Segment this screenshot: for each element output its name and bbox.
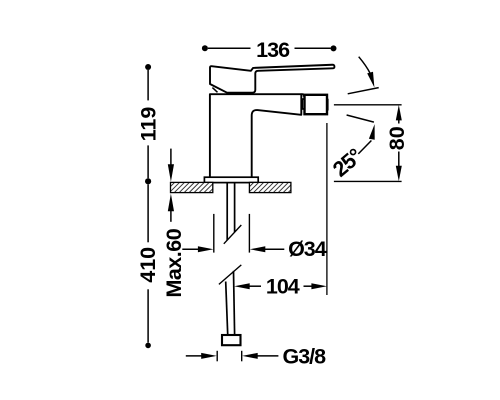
svg-text:Max.60: Max.60 xyxy=(162,228,186,297)
lever step edge xyxy=(251,68,253,71)
angle tick lower xyxy=(347,115,374,122)
dim 104 arrow left xyxy=(234,283,250,289)
svg-text:Ø34: Ø34 xyxy=(288,237,327,261)
dim 104 extension line xyxy=(326,123,328,295)
dim 80 arrow down xyxy=(396,166,402,182)
hose line right xyxy=(234,271,235,334)
dim 119 line lower xyxy=(147,145,149,178)
dim 136 line right xyxy=(295,47,331,49)
svg-text:410: 410 xyxy=(136,247,160,283)
faucet body xyxy=(210,94,301,177)
svg-text:80: 80 xyxy=(385,126,409,150)
dim G3/8 arrow left xyxy=(186,355,203,357)
dim G3/8 tick left xyxy=(216,351,218,362)
dim node dot counter level xyxy=(145,178,151,184)
dim 410 line upper xyxy=(147,184,149,242)
lever notch spur xyxy=(212,88,217,93)
svg-text:G3/8: G3/8 xyxy=(283,345,327,369)
dim 410 line lower xyxy=(147,289,149,342)
dim G3/8 arrow right xyxy=(242,353,258,359)
dim 80 top reference line xyxy=(334,104,402,106)
dim 80 bottom reference line xyxy=(334,180,402,182)
dim 410 dot bottom xyxy=(145,343,151,349)
dim 136 dot left xyxy=(202,45,208,51)
svg-text:119: 119 xyxy=(136,107,160,142)
dim 104 arrow right xyxy=(304,285,314,287)
base plate xyxy=(204,177,258,182)
pipe break lower xyxy=(219,265,241,285)
dim O34 arrow right xyxy=(250,246,265,252)
counter right block xyxy=(249,182,291,192)
dim O34 extension left xyxy=(213,214,215,253)
svg-text:136: 136 xyxy=(256,38,290,62)
pipe break upper xyxy=(224,225,242,244)
dim Max.60 arrow up xyxy=(170,210,172,222)
dim 119 line upper xyxy=(147,70,149,100)
faucet lever handle xyxy=(210,65,334,93)
dim 80 vertical line xyxy=(398,118,400,124)
dim O34 arrow left xyxy=(182,248,199,250)
angle tick upper xyxy=(348,88,379,94)
shank line right xyxy=(234,183,236,233)
angle arrow lower xyxy=(358,141,371,154)
dim G3/8 tick right xyxy=(241,351,243,362)
dim 136 dot right xyxy=(331,45,337,51)
dim O34 extension right xyxy=(248,214,250,253)
aerator block xyxy=(305,95,328,114)
spout connector xyxy=(302,99,304,109)
aerator outlet ledge xyxy=(327,99,329,111)
dim 80 arrow up xyxy=(396,105,402,121)
spout top edge extension xyxy=(301,94,303,96)
shank line left xyxy=(226,183,228,241)
dim Max.60 arrow down xyxy=(170,149,172,165)
hose nut xyxy=(222,335,241,345)
counter left block xyxy=(171,182,213,192)
angle arrow upper xyxy=(359,57,371,74)
dim 119 dot top xyxy=(145,64,151,70)
svg-text:104: 104 xyxy=(266,275,300,299)
dim 136 line left xyxy=(208,47,251,49)
hose line left xyxy=(226,282,228,335)
